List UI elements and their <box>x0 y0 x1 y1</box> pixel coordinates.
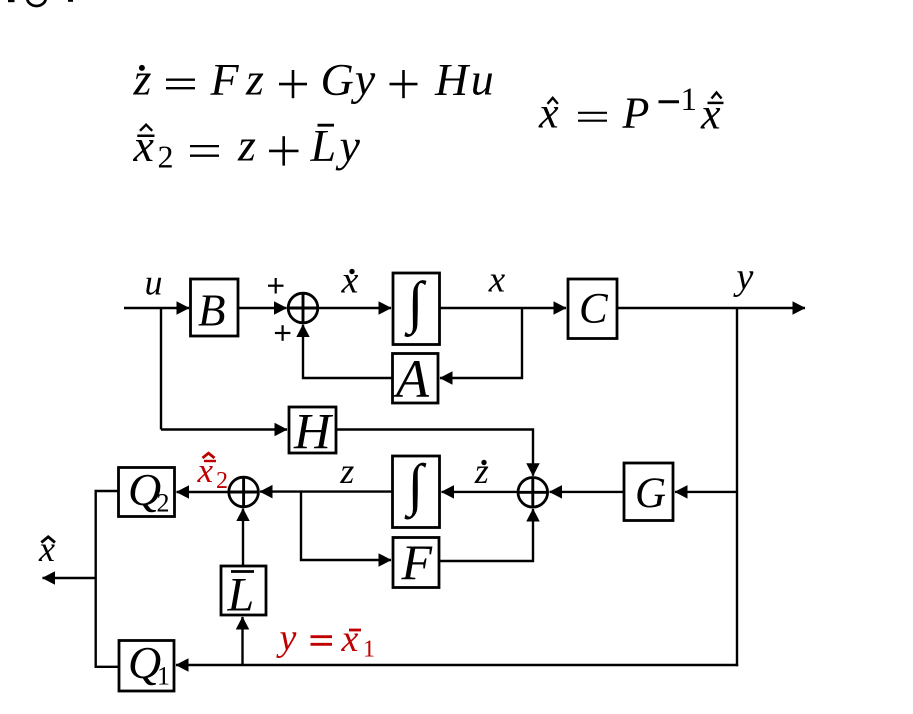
svg-text:G: G <box>635 470 666 517</box>
equation line 2: xhatbar_2 = z + Lbar y <box>133 120 361 175</box>
svg-text:x: x <box>341 259 359 301</box>
svg-text:x: x <box>133 120 155 171</box>
wire y to G <box>675 491 737 493</box>
svg-text:x: x <box>197 451 214 490</box>
svg-text:2: 2 <box>216 468 228 494</box>
svg-text:z: z <box>474 451 489 491</box>
cut-off text fragment top-left <box>8 0 73 6</box>
svg-text:y: y <box>276 617 297 659</box>
wire bottom bus y to Q1 <box>176 664 738 666</box>
label zdot <box>474 451 489 491</box>
wire C to output y <box>617 307 805 309</box>
svg-text:u: u <box>145 263 163 303</box>
svg-text:1: 1 <box>363 637 375 663</box>
svg-text:2: 2 <box>157 489 170 518</box>
svg-text:F: F <box>401 534 433 590</box>
svg-text:u: u <box>471 54 494 105</box>
wire input u <box>124 307 189 309</box>
wire A to sum1 <box>303 325 393 378</box>
wire G to sum3 <box>550 491 625 493</box>
wire F to sum3 <box>439 509 533 561</box>
node z branch to F <box>301 492 391 560</box>
block B <box>191 279 239 336</box>
wire xhat output <box>43 577 96 579</box>
block A <box>393 349 439 409</box>
block G <box>624 463 673 521</box>
node x branch down to A <box>440 308 522 378</box>
svg-text:x: x <box>488 259 506 300</box>
wire H to sum3 <box>336 430 533 476</box>
svg-text:∫: ∫ <box>404 270 427 338</box>
svg-text:x: x <box>341 618 359 660</box>
wire B to sum1 <box>238 307 287 309</box>
wire Q2 to left bus <box>96 491 119 667</box>
svg-text:H: H <box>434 54 471 105</box>
wire sum1 to integrator1 <box>318 307 391 309</box>
block Lbar <box>221 566 266 622</box>
svg-text:1: 1 <box>681 82 698 118</box>
label xhatbar2 red <box>197 451 229 494</box>
block Q1 <box>119 637 174 691</box>
svg-text:F: F <box>210 54 240 105</box>
equation right: xhat = P^-1 xhatbar <box>538 82 724 139</box>
summing junction S2 <box>229 477 259 507</box>
svg-text:z: z <box>339 451 354 491</box>
svg-text:1: 1 <box>157 662 170 691</box>
svg-text:A: A <box>393 349 430 409</box>
plus sign lower <box>275 325 291 341</box>
node u branch <box>160 308 162 430</box>
plus sign upper <box>268 278 284 294</box>
svg-text:y: y <box>351 54 376 105</box>
svg-text:x: x <box>538 89 559 138</box>
equation line 1: zdot = Fz + Gy + Hu <box>133 54 494 106</box>
svg-text:L: L <box>310 120 337 171</box>
block F <box>393 534 439 590</box>
label xdot <box>341 259 359 301</box>
svg-text:∫: ∫ <box>404 452 427 520</box>
wire sum3 to integrator2 <box>442 491 518 493</box>
svg-text:x: x <box>38 529 55 569</box>
label y = xbar1 red <box>276 617 376 663</box>
svg-text:z: z <box>245 54 264 105</box>
svg-text:L: L <box>227 569 255 622</box>
svg-text:H: H <box>293 405 334 461</box>
label xhat <box>38 529 55 569</box>
svg-text:z: z <box>237 120 256 171</box>
integrator block 1 <box>393 270 440 345</box>
wire Lbar to sum2 <box>242 509 244 566</box>
svg-text:C: C <box>579 286 609 333</box>
svg-text:2: 2 <box>158 139 174 175</box>
svg-text:y: y <box>733 256 754 298</box>
node y branch down <box>736 308 738 666</box>
wire integrator1 to C <box>440 307 567 309</box>
svg-text:P: P <box>622 89 650 138</box>
block H <box>289 405 336 461</box>
svg-text:x: x <box>700 90 721 139</box>
summing junction S1 <box>288 293 318 323</box>
integrator block 2 <box>393 452 440 528</box>
svg-text:B: B <box>198 286 226 336</box>
svg-text:G: G <box>321 54 354 105</box>
wire bottom to Lbar <box>241 617 243 665</box>
summing junction S3 <box>518 478 548 508</box>
svg-text:z: z <box>133 54 152 105</box>
wire integrator2 to sum2 <box>260 490 393 492</box>
wire sum2 to Q2 <box>177 491 229 493</box>
block C <box>568 279 617 339</box>
block Q2 <box>119 464 175 518</box>
wire u to H <box>161 428 287 430</box>
svg-text:y: y <box>336 120 361 171</box>
